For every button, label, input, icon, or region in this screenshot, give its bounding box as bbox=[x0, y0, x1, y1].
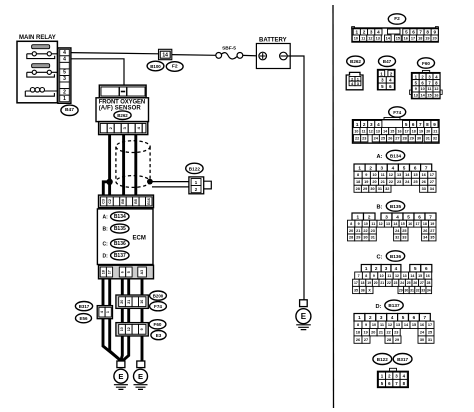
svg-text:B317: B317 bbox=[79, 304, 90, 309]
svg-text:28: 28 bbox=[402, 137, 406, 141]
svg-text:4: 4 bbox=[377, 30, 380, 35]
svg-text:28: 28 bbox=[356, 187, 360, 191]
svg-text:4: 4 bbox=[63, 57, 66, 63]
svg-text:E: E bbox=[301, 312, 307, 321]
svg-text:8: 8 bbox=[426, 30, 429, 35]
svg-text:C3: C3 bbox=[102, 199, 106, 204]
connector label B47 oval (panel) bbox=[379, 56, 396, 66]
svg-text:8: 8 bbox=[357, 323, 359, 327]
svg-text:16: 16 bbox=[434, 93, 438, 97]
node shield drain bbox=[147, 179, 153, 185]
svg-text:16: 16 bbox=[398, 129, 402, 133]
svg-text:23: 23 bbox=[394, 331, 398, 335]
fuse SBF-5 fusible link bbox=[216, 46, 243, 59]
svg-text:21: 21 bbox=[127, 300, 131, 304]
svg-text:23: 23 bbox=[371, 229, 375, 233]
ECM U2 bbox=[97, 209, 153, 265]
svg-text:26: 26 bbox=[388, 137, 392, 141]
wire relay pin 2 to sensor heater bbox=[71, 59, 124, 86]
svg-text:23: 23 bbox=[397, 180, 401, 184]
svg-text:3: 3 bbox=[385, 266, 388, 271]
svg-text:B136: B136 bbox=[390, 254, 402, 259]
shield around A/F sensor signal wires bbox=[116, 141, 150, 188]
svg-text:19: 19 bbox=[430, 222, 434, 226]
svg-text:5: 5 bbox=[405, 122, 408, 127]
svg-text:20: 20 bbox=[432, 36, 436, 40]
svg-text:1: 1 bbox=[356, 30, 359, 35]
svg-text:22: 22 bbox=[386, 331, 390, 335]
svg-text:F74: F74 bbox=[393, 110, 401, 115]
connector pinout F2 bbox=[352, 27, 439, 42]
connector F60/E3 inline bbox=[116, 323, 148, 336]
svg-text:7: 7 bbox=[425, 166, 428, 171]
svg-text:3: 3 bbox=[380, 315, 383, 320]
connector label B137 oval bbox=[111, 251, 129, 260]
ground E (left) bbox=[114, 369, 128, 389]
connector label B47 oval bbox=[61, 105, 78, 115]
svg-text:4: 4 bbox=[396, 214, 399, 219]
svg-text:7: 7 bbox=[419, 122, 422, 127]
svg-text:4: 4 bbox=[377, 122, 380, 127]
connector label B317 oval bbox=[75, 302, 92, 311]
connector label E3 oval bbox=[151, 331, 166, 340]
svg-text:12: 12 bbox=[369, 129, 373, 133]
svg-text:4: 4 bbox=[392, 166, 395, 171]
svg-text:19: 19 bbox=[367, 281, 371, 285]
svg-text:15: 15 bbox=[418, 274, 422, 278]
connector label B100 oval bbox=[147, 61, 164, 71]
svg-text:30: 30 bbox=[363, 236, 367, 240]
svg-text:11: 11 bbox=[380, 323, 384, 327]
svg-text:B134: B134 bbox=[114, 214, 126, 220]
svg-text:16: 16 bbox=[408, 222, 412, 226]
connector label B136 oval bbox=[111, 239, 129, 248]
connector pinout F74 bbox=[353, 118, 440, 144]
svg-text:B200: B200 bbox=[153, 294, 164, 299]
svg-text:18: 18 bbox=[361, 281, 365, 285]
svg-text:7: 7 bbox=[419, 30, 422, 35]
svg-text:3: 3 bbox=[381, 166, 384, 171]
svg-text:10: 10 bbox=[372, 323, 376, 327]
svg-text:25: 25 bbox=[402, 229, 406, 233]
svg-text:2: 2 bbox=[375, 266, 378, 271]
wire sensor pin to ECM (signal 3, shielded) bbox=[134, 135, 137, 197]
svg-text:21: 21 bbox=[381, 180, 385, 184]
svg-text:8: 8 bbox=[357, 173, 359, 177]
wire relay pin to fuse 14 and battery bbox=[71, 53, 159, 54]
svg-text:SBF-5: SBF-5 bbox=[222, 46, 236, 52]
svg-text:24: 24 bbox=[400, 281, 404, 285]
wire ECM pin to ground (4) bbox=[122, 279, 128, 362]
svg-text:9: 9 bbox=[434, 30, 437, 35]
svg-text:13: 13 bbox=[397, 173, 401, 177]
svg-text:18: 18 bbox=[356, 331, 360, 335]
svg-text:30: 30 bbox=[405, 288, 409, 292]
svg-text:C:: C: bbox=[377, 255, 383, 261]
svg-text:B16: B16 bbox=[147, 198, 151, 205]
svg-text:10: 10 bbox=[420, 87, 424, 91]
svg-text:21: 21 bbox=[379, 331, 383, 335]
svg-text:7: 7 bbox=[358, 274, 360, 278]
svg-text:A3: A3 bbox=[140, 270, 144, 275]
svg-text:B135: B135 bbox=[390, 204, 402, 209]
svg-text:B47: B47 bbox=[65, 107, 74, 113]
svg-text:18: 18 bbox=[356, 180, 360, 184]
svg-text:5: 5 bbox=[414, 266, 417, 271]
svg-text:17: 17 bbox=[108, 270, 112, 274]
connector label B135 oval bbox=[111, 224, 129, 233]
svg-text:10: 10 bbox=[372, 173, 376, 177]
svg-text:19: 19 bbox=[425, 36, 429, 40]
svg-text:20: 20 bbox=[349, 229, 353, 233]
svg-text:17: 17 bbox=[411, 36, 415, 40]
svg-text:31: 31 bbox=[378, 187, 382, 191]
svg-text:25: 25 bbox=[381, 137, 385, 141]
svg-text:6: 6 bbox=[413, 315, 416, 320]
svg-text:29: 29 bbox=[395, 338, 399, 342]
connector label B134 oval bbox=[111, 212, 129, 221]
svg-text:10: 10 bbox=[380, 274, 384, 278]
svg-text:5: 5 bbox=[402, 315, 405, 320]
svg-text:16: 16 bbox=[140, 300, 144, 304]
connector label E56 oval bbox=[76, 314, 92, 323]
svg-text:FRONT OXYGEN: FRONT OXYGEN bbox=[99, 100, 146, 106]
ground E (right) bbox=[134, 369, 148, 389]
svg-text:B122: B122 bbox=[377, 357, 388, 362]
svg-text:20: 20 bbox=[372, 180, 376, 184]
connector label B317 oval (panel) bbox=[393, 354, 412, 365]
svg-text:20: 20 bbox=[426, 129, 430, 133]
svg-text:22: 22 bbox=[387, 281, 391, 285]
svg-text:21: 21 bbox=[356, 229, 360, 233]
connector strip ECM top (B134/B135 pins) bbox=[99, 195, 154, 208]
svg-text:27: 27 bbox=[430, 229, 434, 233]
svg-text:17: 17 bbox=[428, 323, 432, 327]
svg-text:26: 26 bbox=[356, 338, 360, 342]
wire ECM pin to ground (2) bbox=[110, 279, 121, 361]
svg-text:13: 13 bbox=[414, 93, 418, 97]
svg-text:8: 8 bbox=[350, 222, 352, 226]
node junction on signal 1 bbox=[106, 179, 112, 185]
svg-text:4: 4 bbox=[63, 50, 66, 56]
divider line between circuit and pinout panel bbox=[332, 5, 335, 408]
connector pinout B135 bbox=[348, 213, 437, 241]
svg-text:18: 18 bbox=[101, 270, 105, 274]
svg-text:16: 16 bbox=[422, 173, 426, 177]
svg-text:A:: A: bbox=[103, 215, 109, 221]
svg-text:29: 29 bbox=[399, 288, 403, 292]
svg-text:20: 20 bbox=[374, 281, 378, 285]
svg-text:F60: F60 bbox=[422, 61, 430, 66]
svg-text:F60: F60 bbox=[154, 322, 162, 327]
connector B122 bbox=[189, 177, 211, 194]
svg-text:3: 3 bbox=[370, 30, 373, 35]
svg-text:8: 8 bbox=[365, 274, 367, 278]
wire sensor pin to ECM (signal 1) bbox=[108, 135, 111, 197]
svg-text:19: 19 bbox=[363, 331, 367, 335]
fuse F1 No.14 bbox=[159, 49, 172, 59]
svg-text:2: 2 bbox=[63, 89, 66, 95]
svg-text:26: 26 bbox=[413, 281, 417, 285]
svg-text:28: 28 bbox=[387, 338, 391, 342]
svg-text:6: 6 bbox=[425, 266, 428, 271]
svg-text:3: 3 bbox=[385, 214, 388, 219]
oxygen sensor U1 FRONT OXYGEN (A/F) SENSOR bbox=[96, 98, 149, 122]
svg-text:21: 21 bbox=[433, 129, 437, 133]
svg-text:MAIN RELAY: MAIN RELAY bbox=[19, 35, 56, 41]
svg-text:10: 10 bbox=[364, 222, 368, 226]
svg-text:12: 12 bbox=[127, 327, 131, 331]
svg-text:15: 15 bbox=[413, 173, 417, 177]
svg-text:17: 17 bbox=[354, 281, 358, 285]
connector label F60 oval bbox=[149, 320, 166, 329]
svg-text:BATTERY: BATTERY bbox=[259, 37, 287, 43]
connector label F2 oval bbox=[166, 62, 183, 72]
svg-text:2: 2 bbox=[368, 214, 371, 219]
svg-text:1: 1 bbox=[63, 96, 66, 102]
connector label F60 oval (panel) bbox=[418, 58, 435, 68]
svg-text:B134: B134 bbox=[390, 153, 402, 158]
svg-text:11: 11 bbox=[361, 36, 365, 40]
svg-text:12: 12 bbox=[395, 274, 399, 278]
svg-text:25: 25 bbox=[407, 281, 411, 285]
svg-text:5: 5 bbox=[63, 70, 66, 76]
svg-text:B122: B122 bbox=[189, 166, 201, 171]
svg-text:12: 12 bbox=[368, 36, 372, 40]
wire sensor pin to ECM (signal 2, shielded) bbox=[122, 135, 125, 197]
svg-text:10: 10 bbox=[354, 36, 358, 40]
svg-text:6: 6 bbox=[414, 166, 417, 171]
svg-text:28: 28 bbox=[349, 236, 353, 240]
svg-text:E3: E3 bbox=[156, 333, 162, 338]
svg-text:14: 14 bbox=[162, 52, 168, 58]
wire shield drain to B122 pin 1 bbox=[150, 181, 190, 183]
svg-text:29: 29 bbox=[410, 137, 414, 141]
svg-text:12: 12 bbox=[434, 87, 438, 91]
svg-text:B47: B47 bbox=[383, 59, 392, 64]
svg-text:32: 32 bbox=[433, 137, 437, 141]
svg-text:9: 9 bbox=[433, 122, 436, 127]
svg-text:B317: B317 bbox=[397, 357, 408, 362]
wire SBF-5 to battery bbox=[243, 54, 257, 56]
ground terminal (right) bbox=[137, 361, 145, 368]
svg-text:20: 20 bbox=[371, 331, 375, 335]
connector label B262 oval (panel) bbox=[347, 56, 365, 66]
svg-text:26: 26 bbox=[422, 180, 426, 184]
svg-text:5: 5 bbox=[403, 166, 406, 171]
connector pinout B47 bbox=[378, 70, 395, 90]
connector B317/E56 bbox=[97, 306, 112, 319]
connector label B122 oval (panel) bbox=[373, 354, 392, 365]
connector pinout B136 bbox=[353, 265, 432, 294]
svg-text:1: 1 bbox=[356, 122, 359, 127]
svg-text:14: 14 bbox=[393, 222, 397, 226]
svg-text:E: E bbox=[138, 372, 143, 381]
wire ECM pin to ground (1) bbox=[103, 279, 119, 361]
svg-text:C:: C: bbox=[103, 242, 109, 248]
connector label F2 oval (panel) bbox=[388, 14, 405, 24]
svg-text:B262: B262 bbox=[350, 59, 361, 64]
svg-text:6: 6 bbox=[121, 271, 125, 273]
svg-text:ECM: ECM bbox=[133, 235, 146, 241]
svg-text:25: 25 bbox=[428, 331, 432, 335]
svg-text:A:: A: bbox=[377, 154, 383, 160]
connector strip B47 (main relay pins) bbox=[58, 48, 71, 103]
svg-text:6: 6 bbox=[412, 122, 415, 127]
ground terminal (left) bbox=[117, 361, 125, 368]
svg-text:17: 17 bbox=[416, 222, 420, 226]
svg-text:12: 12 bbox=[389, 173, 393, 177]
connector label B136 oval (panel, C:) bbox=[377, 251, 405, 261]
wire to B122 pin 2 bbox=[152, 186, 190, 188]
svg-text:1: 1 bbox=[106, 311, 110, 313]
svg-text:11: 11 bbox=[427, 87, 431, 91]
svg-text:2: 2 bbox=[369, 315, 372, 320]
wire ECM pin to ground (3) bbox=[121, 279, 122, 361]
ground terminal (battery) bbox=[300, 300, 308, 307]
svg-text:35: 35 bbox=[354, 288, 358, 292]
svg-text:6: 6 bbox=[412, 30, 415, 35]
svg-text:13: 13 bbox=[386, 222, 390, 226]
svg-text:19: 19 bbox=[364, 180, 368, 184]
svg-text:31: 31 bbox=[426, 137, 430, 141]
svg-text:E56: E56 bbox=[79, 316, 88, 321]
svg-text:11: 11 bbox=[362, 129, 366, 133]
svg-text:D:: D: bbox=[103, 254, 109, 260]
connector strip B262 bottom (sensor) bbox=[99, 122, 148, 135]
svg-text:31: 31 bbox=[410, 288, 414, 292]
svg-text:C2: C2 bbox=[108, 199, 112, 204]
wire branch junction to ECM pin bbox=[103, 182, 109, 197]
svg-text:B136: B136 bbox=[114, 241, 126, 247]
svg-text:31: 31 bbox=[428, 338, 432, 342]
svg-text:B137: B137 bbox=[388, 303, 400, 308]
wire ECM pin to ground (5) bbox=[141, 279, 142, 361]
svg-text:9: 9 bbox=[415, 87, 417, 91]
connector B200/F74 inline bbox=[116, 295, 148, 308]
svg-text:33: 33 bbox=[421, 288, 425, 292]
svg-text:9: 9 bbox=[358, 222, 360, 226]
connector label F74 oval bbox=[150, 302, 167, 311]
svg-text:F2: F2 bbox=[394, 16, 400, 22]
svg-text:22: 22 bbox=[355, 137, 359, 141]
svg-text:11: 11 bbox=[387, 274, 391, 278]
svg-text:15: 15 bbox=[412, 323, 416, 327]
svg-text:E: E bbox=[118, 372, 123, 381]
svg-text:18: 18 bbox=[423, 222, 427, 226]
svg-text:20: 20 bbox=[120, 300, 124, 304]
svg-text:11: 11 bbox=[371, 222, 375, 226]
svg-text:9: 9 bbox=[140, 328, 144, 330]
svg-text:B:: B: bbox=[103, 227, 109, 233]
connector strip ECM bottom bbox=[99, 265, 154, 279]
svg-text:14: 14 bbox=[410, 274, 414, 278]
svg-text:2: 2 bbox=[363, 30, 366, 35]
svg-text:1: 1 bbox=[365, 266, 368, 271]
svg-text:30: 30 bbox=[417, 137, 421, 141]
svg-text:3: 3 bbox=[370, 122, 373, 127]
svg-text:21: 21 bbox=[380, 281, 384, 285]
svg-text:15: 15 bbox=[401, 222, 405, 226]
svg-text:18: 18 bbox=[412, 129, 416, 133]
svg-text:18: 18 bbox=[418, 36, 422, 40]
svg-text:B100: B100 bbox=[150, 64, 161, 69]
connector strip B262 top (sensor) bbox=[99, 85, 146, 98]
svg-text:27: 27 bbox=[364, 338, 368, 342]
svg-text:19: 19 bbox=[419, 129, 423, 133]
svg-text:F2: F2 bbox=[172, 63, 178, 69]
svg-text:5: 5 bbox=[407, 214, 410, 219]
svg-text:16: 16 bbox=[420, 323, 424, 327]
svg-text:30: 30 bbox=[420, 338, 424, 342]
svg-text:17: 17 bbox=[430, 173, 434, 177]
svg-text:9: 9 bbox=[373, 274, 375, 278]
wire battery negative to ground bbox=[287, 56, 304, 300]
svg-text:33: 33 bbox=[402, 236, 406, 240]
svg-text:D:: D: bbox=[376, 304, 382, 310]
svg-text:15: 15 bbox=[396, 36, 400, 40]
svg-text:17: 17 bbox=[405, 129, 409, 133]
connector pinout B134 bbox=[354, 164, 436, 192]
svg-text:23: 23 bbox=[394, 281, 398, 285]
svg-text:14: 14 bbox=[383, 129, 387, 133]
wire fuse 14 to SBF-5 bbox=[172, 54, 216, 57]
svg-text:B:: B: bbox=[377, 205, 383, 211]
svg-text:29: 29 bbox=[356, 236, 360, 240]
svg-text:15: 15 bbox=[390, 129, 394, 133]
svg-text:10: 10 bbox=[120, 327, 124, 331]
svg-text:13: 13 bbox=[403, 274, 407, 278]
svg-text:32: 32 bbox=[395, 236, 399, 240]
svg-text:28: 28 bbox=[427, 281, 431, 285]
svg-text:9: 9 bbox=[365, 173, 367, 177]
svg-text:7: 7 bbox=[429, 214, 432, 219]
svg-text:15: 15 bbox=[427, 93, 431, 97]
svg-text:5: 5 bbox=[127, 271, 131, 273]
svg-text:35: 35 bbox=[430, 236, 434, 240]
svg-text:25: 25 bbox=[413, 180, 417, 184]
svg-text:13: 13 bbox=[376, 129, 380, 133]
svg-text:10: 10 bbox=[354, 129, 358, 133]
svg-text:26: 26 bbox=[423, 229, 427, 233]
connector label B122 oval bbox=[186, 163, 203, 173]
connector label B262 oval bbox=[114, 111, 131, 120]
svg-text:4: 4 bbox=[100, 311, 104, 313]
svg-text:27: 27 bbox=[420, 281, 424, 285]
svg-text:1: 1 bbox=[358, 315, 361, 320]
svg-text:11: 11 bbox=[381, 173, 385, 177]
svg-text:1: 1 bbox=[357, 214, 360, 219]
svg-text:30: 30 bbox=[370, 187, 374, 191]
connector label B134 oval (panel, A:) bbox=[377, 150, 405, 160]
connector pinout B122/B317 bbox=[378, 368, 409, 387]
svg-text:31: 31 bbox=[371, 236, 375, 240]
svg-text:4: 4 bbox=[395, 266, 398, 271]
svg-text:22: 22 bbox=[389, 180, 393, 184]
svg-text:13: 13 bbox=[376, 36, 380, 40]
svg-text:7: 7 bbox=[424, 315, 427, 320]
svg-text:27: 27 bbox=[430, 180, 434, 184]
svg-text:36: 36 bbox=[361, 288, 365, 292]
connector label B200 oval bbox=[150, 291, 167, 300]
connector label F74 oval (panel) bbox=[389, 107, 406, 117]
svg-text:16: 16 bbox=[404, 36, 408, 40]
svg-text:B5: B5 bbox=[134, 199, 138, 204]
svg-text:23: 23 bbox=[362, 137, 366, 141]
svg-text:B8: B8 bbox=[121, 199, 125, 204]
svg-text:B137: B137 bbox=[114, 253, 126, 259]
connector pinout F60 bbox=[410, 71, 443, 99]
